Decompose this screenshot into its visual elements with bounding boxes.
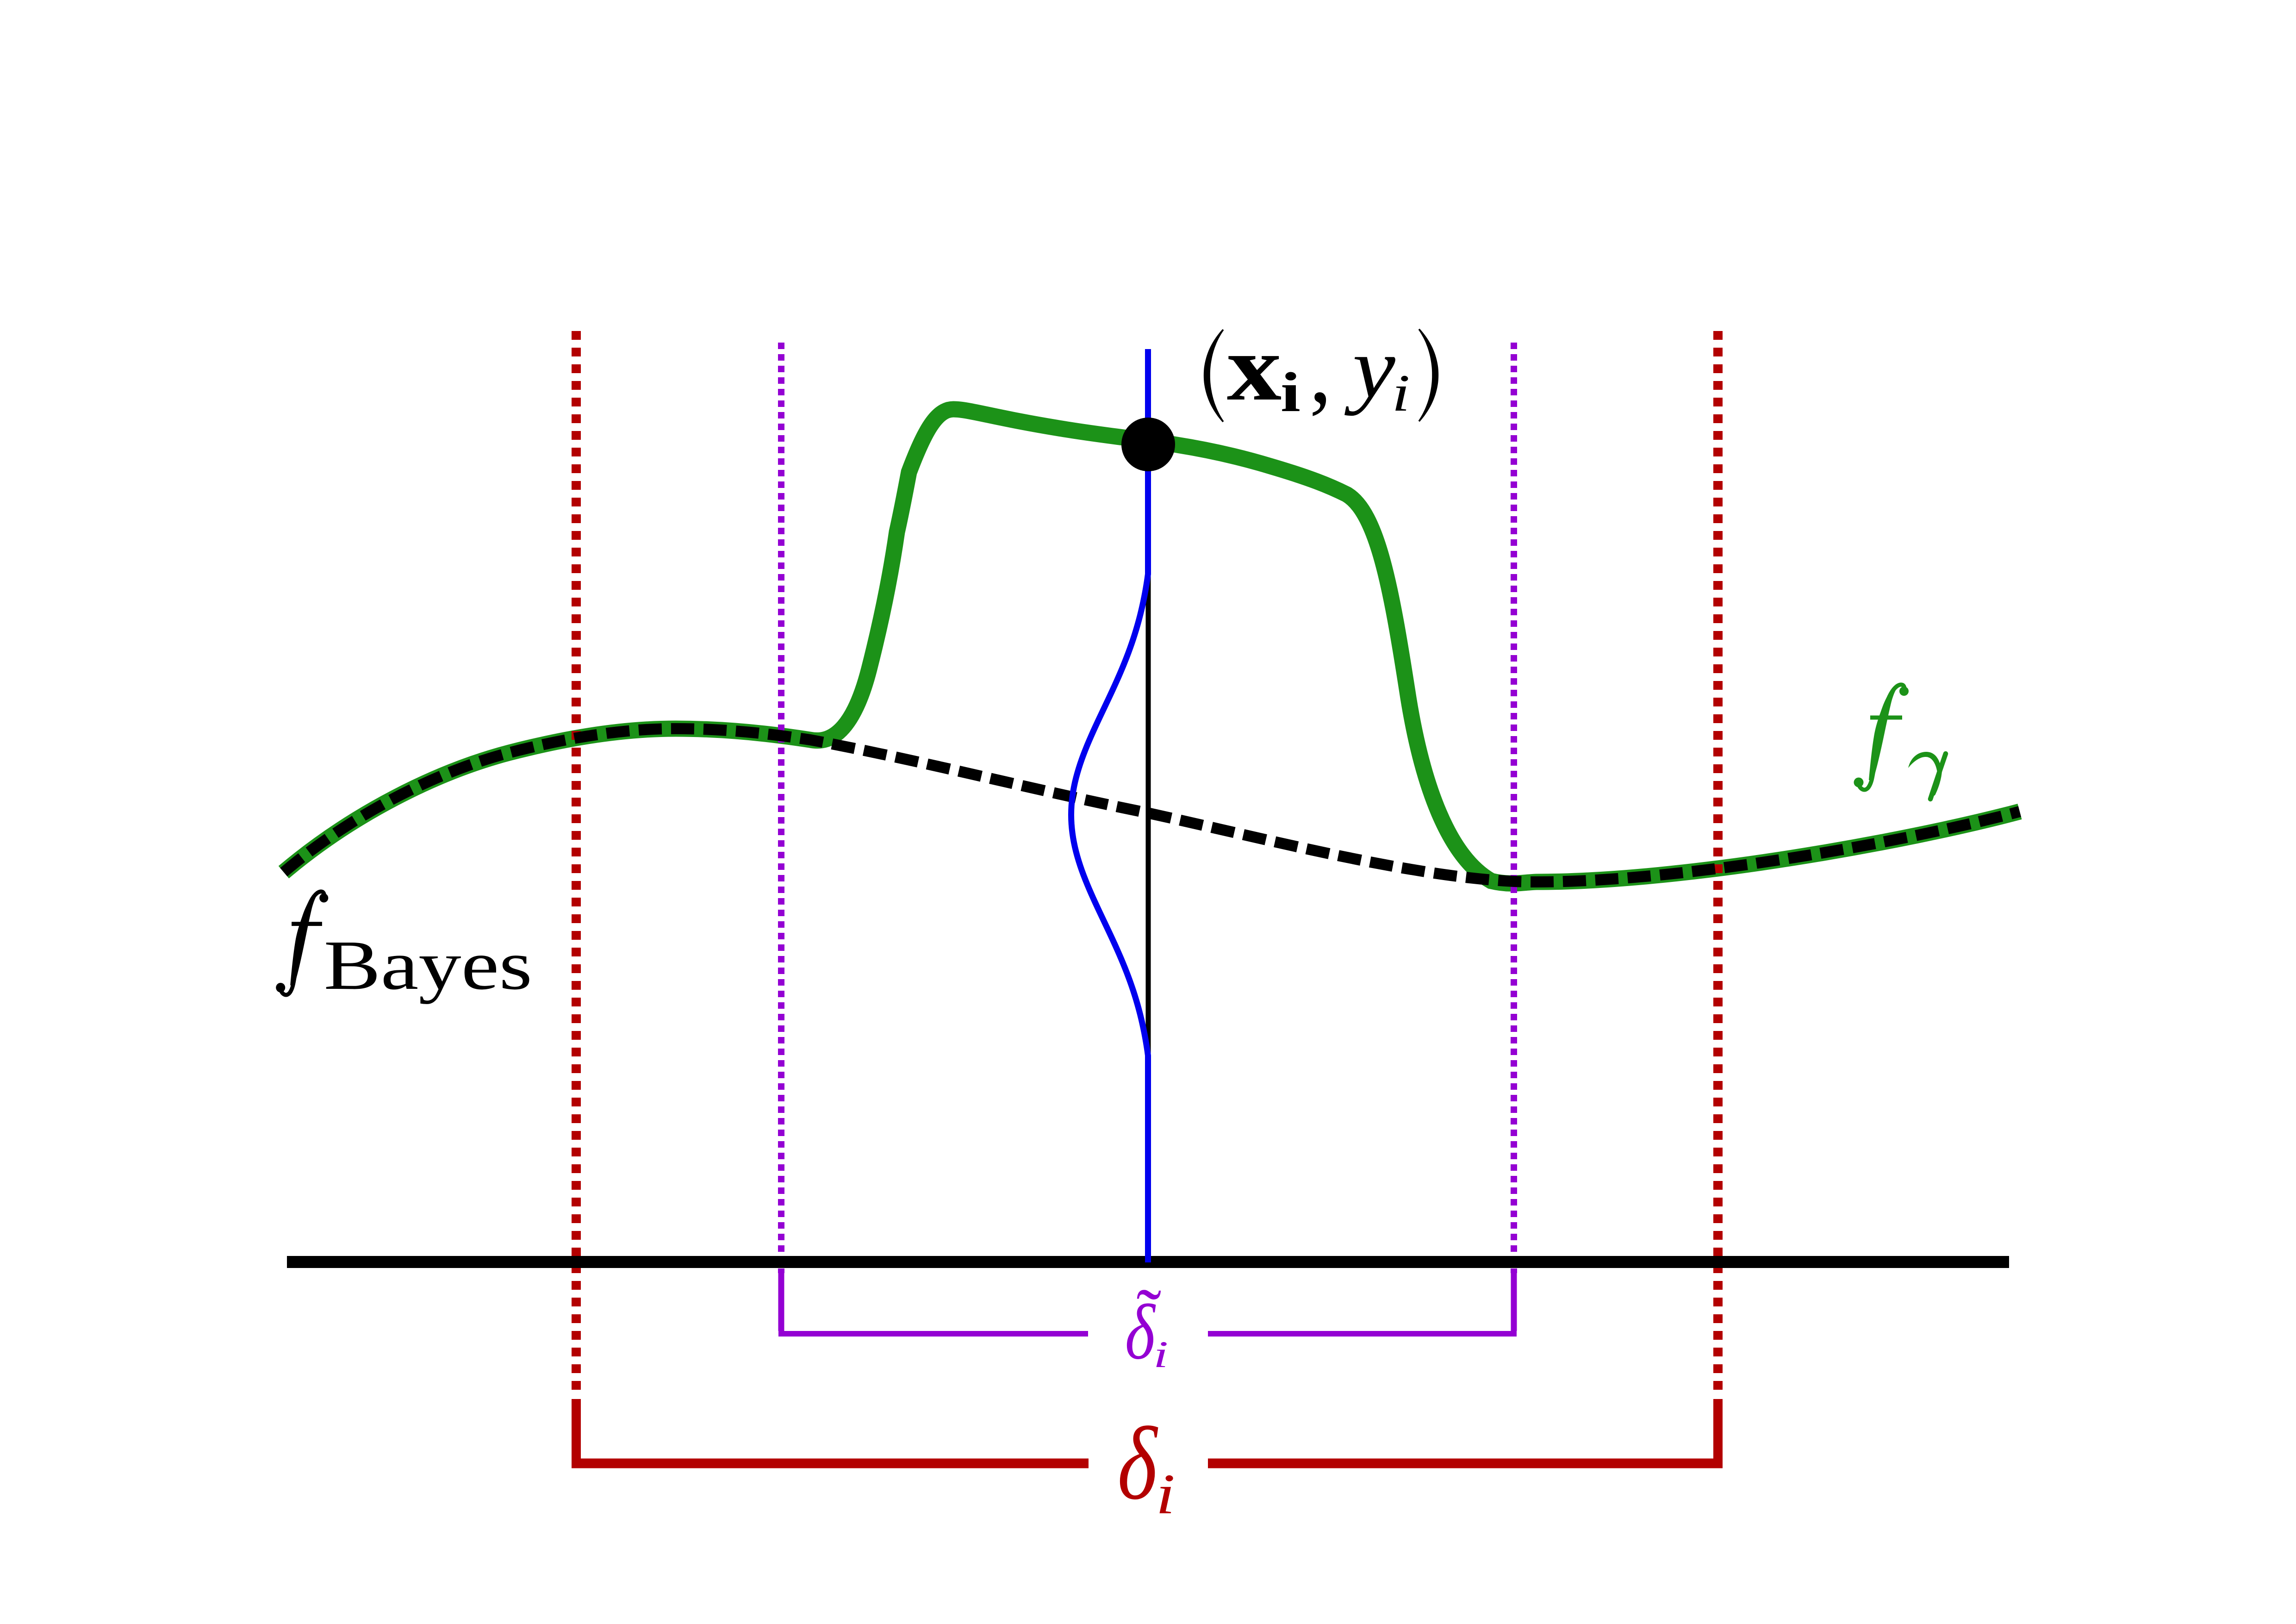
svg-text:i: i: [1153, 1333, 1168, 1375]
red bracket for delta: [576, 1399, 1718, 1463]
black data point dot: [1121, 418, 1175, 471]
svg-text:x: x: [1227, 315, 1282, 420]
svg-text:Bayes: Bayes: [324, 926, 533, 1005]
x axis: [287, 1256, 2009, 1268]
svg-text:i: i: [1156, 1462, 1175, 1526]
label (x_i, y_i): [1204, 315, 1438, 424]
purple dotted vertical line left: [778, 343, 784, 1273]
svg-text:y: y: [1344, 319, 1396, 416]
dashed black curve f_Bayes: [284, 729, 2020, 882]
gamma glyph of f_gamma: [1908, 752, 1946, 799]
svg-text:,: ,: [1309, 319, 1332, 422]
svg-text:δ: δ: [1118, 1405, 1158, 1521]
label f_gamma (green): [1854, 685, 1909, 790]
red dotted vertical line left: [572, 331, 581, 1393]
svg-text:i: i: [1392, 363, 1410, 422]
label delta i (red): [1118, 1405, 1176, 1526]
purple bracket for delta tilde: [781, 1273, 1514, 1331]
thin black vertical line at x_i: [1146, 444, 1151, 1262]
label f_Bayes: [276, 892, 532, 1005]
label delta tilde i (purple): [1125, 1274, 1168, 1375]
svg-text:i: i: [1281, 362, 1300, 424]
svg-text:δ: δ: [1125, 1288, 1156, 1375]
purple dotted vertical line right: [1511, 343, 1517, 1273]
green curve f_gamma: [284, 409, 2020, 883]
blue vertical line with gaussian bump: [1071, 349, 1148, 1262]
red dotted vertical line right: [1713, 331, 1723, 1393]
